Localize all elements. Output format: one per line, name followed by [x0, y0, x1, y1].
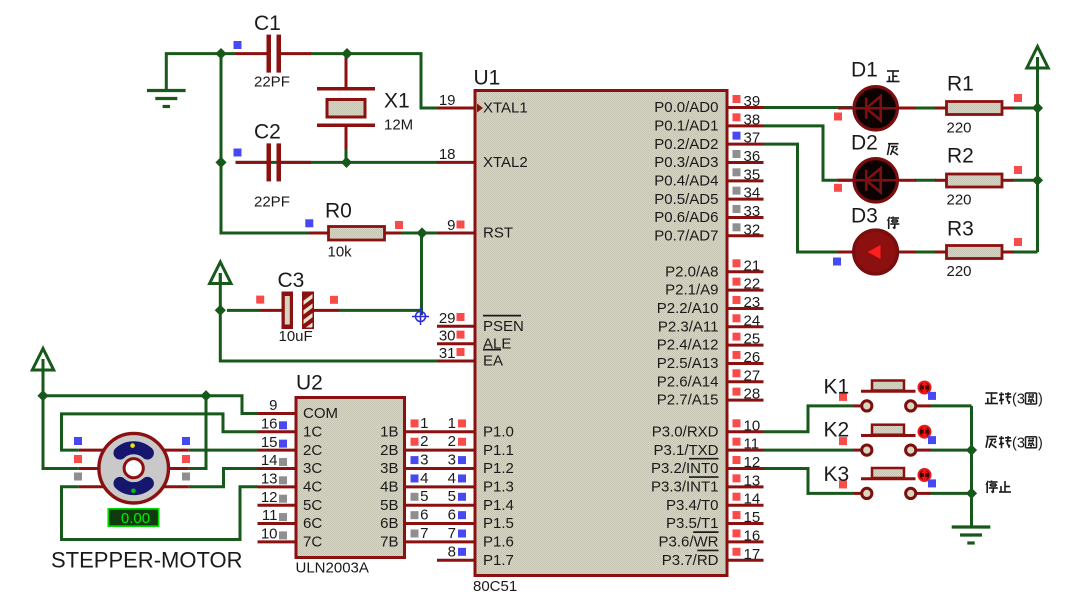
svg-text:4: 4: [448, 470, 456, 487]
svg-text:7: 7: [448, 525, 456, 542]
svg-text:P0.3/AD3: P0.3/AD3: [654, 154, 718, 171]
svg-text:19: 19: [439, 92, 456, 109]
svg-text:3: 3: [420, 452, 428, 469]
svg-text:P3.7/RD: P3.7/RD: [662, 552, 719, 569]
svg-text:P2.4/A12: P2.4/A12: [657, 337, 719, 354]
svg-text:P3.4/T0: P3.4/T0: [666, 497, 719, 514]
svg-text:PSEN: PSEN: [483, 318, 524, 335]
svg-text:ULN2003A: ULN2003A: [296, 560, 369, 577]
svg-text:12: 12: [744, 454, 761, 471]
svg-text:P2.5/A13: P2.5/A13: [657, 355, 719, 372]
svg-text:11: 11: [262, 507, 278, 524]
svg-text:D3: D3: [851, 204, 878, 227]
svg-text:R2: R2: [947, 145, 974, 168]
svg-text:37: 37: [744, 130, 761, 147]
svg-text:U2: U2: [296, 372, 323, 395]
svg-text:EA: EA: [483, 353, 503, 370]
svg-text:P2.3/A11: P2.3/A11: [658, 318, 719, 335]
svg-text:3: 3: [448, 452, 456, 469]
svg-text:3B: 3B: [380, 460, 398, 477]
svg-text:6: 6: [448, 507, 456, 524]
svg-text:4B: 4B: [380, 478, 398, 495]
svg-text:P0.2/AD2: P0.2/AD2: [654, 136, 718, 153]
svg-text:14: 14: [261, 452, 278, 469]
svg-text:P2.7/A15: P2.7/A15: [657, 392, 719, 409]
svg-text:6B: 6B: [380, 515, 398, 532]
svg-text:COM: COM: [303, 405, 338, 422]
svg-text:220: 220: [947, 192, 972, 209]
svg-text:31: 31: [439, 345, 456, 362]
svg-text:P3.3/INT1: P3.3/INT1: [651, 478, 719, 495]
svg-text:15: 15: [744, 509, 761, 526]
svg-text:P0.6/AD6: P0.6/AD6: [654, 209, 718, 226]
svg-text:23: 23: [744, 294, 761, 311]
svg-text:22PF: 22PF: [254, 74, 290, 91]
svg-text:21: 21: [744, 257, 761, 274]
svg-text:6: 6: [420, 507, 428, 524]
svg-text:2: 2: [448, 433, 456, 450]
svg-text:C1: C1: [254, 12, 281, 35]
svg-text:R1: R1: [947, 73, 974, 96]
svg-text:P0.7/AD7: P0.7/AD7: [654, 227, 718, 244]
svg-text:220: 220: [947, 119, 972, 136]
svg-text:R3: R3: [947, 218, 974, 241]
svg-text:22PF: 22PF: [254, 194, 290, 211]
svg-text:1: 1: [420, 415, 428, 432]
svg-text:D2: D2: [851, 132, 878, 155]
svg-text:27: 27: [744, 367, 761, 384]
svg-text:2C: 2C: [303, 442, 322, 459]
svg-text:P1.7: P1.7: [483, 552, 514, 569]
svg-text:4C: 4C: [303, 478, 322, 495]
svg-text:(3: (3: [1012, 435, 1025, 451]
svg-text:2: 2: [420, 433, 428, 450]
svg-text:U1: U1: [474, 67, 501, 90]
svg-text:22: 22: [744, 276, 761, 293]
svg-text:P1.2: P1.2: [483, 460, 514, 477]
svg-text:XTAL1: XTAL1: [483, 100, 528, 117]
svg-text:0.00: 0.00: [121, 510, 150, 527]
svg-text:): ): [1038, 435, 1043, 451]
svg-text:9: 9: [269, 397, 277, 414]
svg-text:18: 18: [439, 146, 456, 163]
svg-text:30: 30: [439, 328, 456, 345]
svg-text:X1: X1: [384, 90, 410, 113]
svg-text:25: 25: [744, 331, 761, 348]
svg-text:29: 29: [439, 310, 456, 327]
svg-text:5B: 5B: [380, 497, 398, 514]
svg-text:P0.4/AD4: P0.4/AD4: [654, 172, 718, 189]
svg-text:P1.4: P1.4: [483, 497, 514, 514]
svg-text:P1.3: P1.3: [483, 478, 514, 495]
svg-text:K3: K3: [824, 463, 850, 486]
svg-text:P1.1: P1.1: [483, 442, 514, 459]
svg-text:17: 17: [744, 546, 761, 563]
svg-text:P2.0/A8: P2.0/A8: [665, 263, 718, 280]
svg-text:38: 38: [744, 111, 761, 128]
svg-text:1C: 1C: [303, 423, 322, 440]
svg-text:P3.0/RXD: P3.0/RXD: [652, 423, 719, 440]
svg-text:P2.1/A9: P2.1/A9: [665, 282, 718, 299]
svg-text:36: 36: [744, 148, 761, 165]
svg-text:RST: RST: [483, 225, 513, 242]
svg-text:10: 10: [261, 526, 278, 543]
svg-text:7C: 7C: [303, 534, 322, 551]
svg-text:11: 11: [744, 436, 760, 453]
svg-text:1B: 1B: [380, 423, 398, 440]
svg-text:P2.6/A14: P2.6/A14: [657, 373, 719, 390]
svg-text:P3.2/INT0: P3.2/INT0: [651, 460, 719, 477]
svg-text:5C: 5C: [303, 497, 322, 514]
svg-text:P0.5/AD5: P0.5/AD5: [654, 191, 718, 208]
svg-text:10: 10: [744, 417, 761, 434]
svg-text:39: 39: [744, 93, 761, 110]
svg-text:10k: 10k: [328, 244, 353, 261]
svg-text:K1: K1: [824, 376, 850, 399]
svg-text:35: 35: [744, 166, 761, 183]
svg-text:12M: 12M: [384, 116, 413, 133]
svg-text:2B: 2B: [380, 442, 398, 459]
svg-text:3C: 3C: [303, 460, 322, 477]
svg-text:P0.1/AD1: P0.1/AD1: [654, 117, 718, 134]
svg-text:(3: (3: [1012, 392, 1025, 408]
svg-text:34: 34: [744, 185, 761, 202]
svg-text:STEPPER-MOTOR: STEPPER-MOTOR: [51, 548, 243, 573]
svg-text:220: 220: [947, 263, 972, 280]
svg-text:28: 28: [744, 386, 761, 403]
svg-text:P2.2/A10: P2.2/A10: [657, 300, 719, 317]
svg-text:33: 33: [744, 203, 761, 220]
svg-text:5: 5: [448, 488, 456, 505]
svg-text:P1.6: P1.6: [483, 534, 514, 551]
svg-text:7B: 7B: [380, 534, 398, 551]
svg-text:9: 9: [447, 217, 455, 234]
svg-text:P1.5: P1.5: [483, 515, 514, 532]
svg-text:13: 13: [261, 470, 278, 487]
svg-text:16: 16: [261, 415, 278, 432]
svg-text:P3.1/TXD: P3.1/TXD: [653, 442, 718, 459]
svg-text:6C: 6C: [303, 515, 322, 532]
svg-text:D1: D1: [851, 59, 878, 82]
svg-text:4: 4: [420, 470, 428, 487]
svg-text:K2: K2: [824, 419, 850, 442]
svg-text:13: 13: [744, 472, 761, 489]
svg-text:5: 5: [420, 488, 428, 505]
svg-text:26: 26: [744, 349, 761, 366]
svg-text:80C51: 80C51: [473, 578, 517, 595]
svg-text:10uF: 10uF: [279, 328, 313, 345]
svg-text:1: 1: [448, 415, 456, 432]
svg-text:16: 16: [744, 527, 761, 544]
svg-text:P0.0/AD0: P0.0/AD0: [654, 99, 718, 116]
svg-text:P1.0: P1.0: [483, 423, 514, 440]
svg-text:XTAL2: XTAL2: [483, 154, 528, 171]
svg-text:P3.6/WR: P3.6/WR: [658, 534, 718, 551]
svg-text:C3: C3: [278, 269, 305, 292]
svg-text:32: 32: [744, 221, 761, 238]
svg-text:8: 8: [448, 543, 456, 560]
svg-text:24: 24: [744, 312, 761, 329]
svg-text:7: 7: [420, 525, 428, 542]
svg-text:R0: R0: [325, 199, 352, 222]
svg-text:): ): [1038, 392, 1043, 408]
svg-text:C2: C2: [254, 121, 281, 144]
svg-text:12: 12: [261, 489, 278, 506]
svg-text:14: 14: [744, 491, 761, 508]
svg-text:P3.5/T1: P3.5/T1: [666, 515, 719, 532]
svg-text:15: 15: [261, 434, 278, 451]
